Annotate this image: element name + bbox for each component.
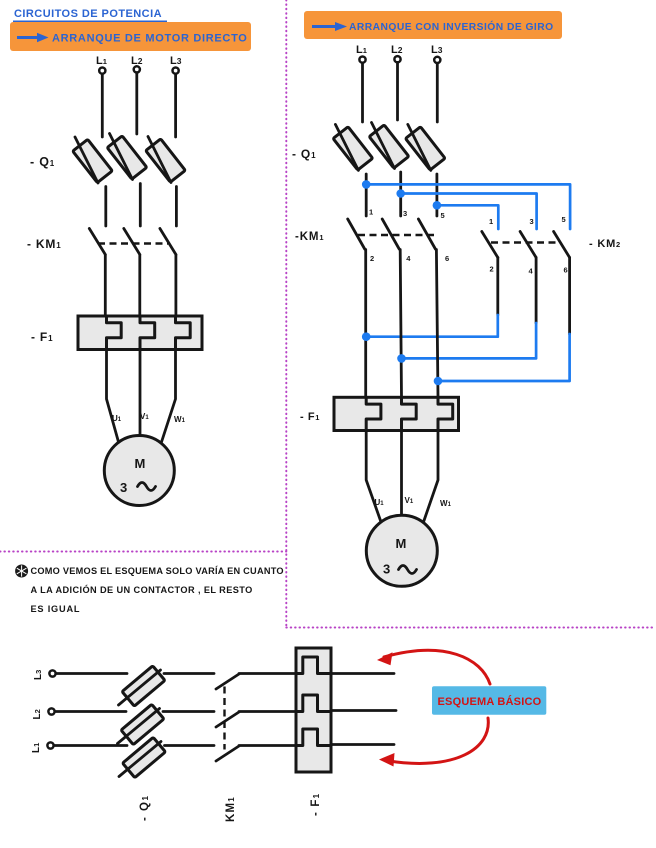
svg-text:ES IGUAL: ES IGUAL <box>31 604 81 614</box>
contactor KM1 pole 1 blade <box>89 229 105 255</box>
wire L2 feed <box>55 710 126 713</box>
blue return wire KM2-phase2 <box>402 323 537 358</box>
wire Q1-KM1 phase 1 <box>104 187 107 227</box>
F1 heater phase 1 <box>107 316 122 350</box>
svg-text:U1: U1 <box>112 414 122 423</box>
wire L3 drop right <box>436 64 439 123</box>
contactor KM1 right pole 1 blade <box>348 219 365 249</box>
wire KM2 pole3 down <box>568 258 571 335</box>
svg-text:- Q1: - Q1 <box>139 795 151 821</box>
svg-text:U1: U1 <box>375 498 385 507</box>
svg-text:3: 3 <box>120 480 127 495</box>
junction node phase2 bottom <box>397 354 406 363</box>
breaker Q1 bottom pole L2 <box>118 704 164 744</box>
contactor KM1 right pole 2 blade <box>382 219 399 249</box>
wire L1 drop right <box>361 63 364 122</box>
svg-text:V1: V1 <box>140 412 149 421</box>
svg-text:2: 2 <box>490 265 494 274</box>
wire F1-motor V right <box>400 431 403 517</box>
motor M right <box>366 515 437 586</box>
terminal L1 right <box>359 57 365 63</box>
svg-text:ARRANQUE DE MOTOR DIRECTO: ARRANQUE DE MOTOR DIRECTO <box>52 33 248 45</box>
svg-text:6: 6 <box>445 254 449 263</box>
junction node phase2 top <box>396 189 405 198</box>
svg-text:- F1: - F1 <box>310 793 322 816</box>
svg-text:2: 2 <box>370 254 374 263</box>
wire Q1-KM1 phase 2 <box>139 184 142 227</box>
blue return wire KM2-phase1 <box>366 315 498 337</box>
breaker Q1 bottom pole L3 <box>119 666 165 706</box>
svg-text:1: 1 <box>489 217 493 226</box>
wire F1-motor W <box>162 350 176 443</box>
svg-text:L3: L3 <box>170 55 182 67</box>
svg-text:W1: W1 <box>440 499 452 508</box>
terminal L3 <box>173 68 179 74</box>
svg-text:- F1: - F1 <box>31 330 53 344</box>
svg-text:3: 3 <box>403 209 407 218</box>
breaker Q1 right pole 1 <box>333 124 373 170</box>
KM1 bottom linkage dashed <box>223 687 225 750</box>
wire KM2 pole1 down <box>496 258 499 316</box>
banner arrow <box>17 33 49 42</box>
breaker Q1 pole 2 <box>107 134 147 180</box>
title CIRCUITOS DE POTENCIA <box>13 8 167 22</box>
terminal L1 <box>99 68 105 74</box>
wire F1-motor U right <box>366 431 381 523</box>
wire Q1-KM1 bottom L1 <box>165 744 215 747</box>
svg-text:COMO VEMOS EL ESQUEMA SOLO VAR: COMO VEMOS EL ESQUEMA SOLO VARÍA EN CUAN… <box>31 565 284 576</box>
svg-text:3: 3 <box>530 217 534 226</box>
contactor KM1 pole 3 blade <box>160 229 176 255</box>
contactor KM1 bottom pole L2 blade <box>216 712 239 727</box>
terminal L2 bottom <box>48 708 54 714</box>
wire F1 out L2 <box>331 709 396 712</box>
breaker Q1 right pole 2 <box>369 123 409 169</box>
separator horizontal right dotted <box>286 627 653 629</box>
breaker Q1 pole 3 <box>146 137 186 183</box>
svg-text:L2: L2 <box>391 44 403 56</box>
svg-text:6: 6 <box>564 266 568 275</box>
svg-text:L1: L1 <box>96 55 107 67</box>
F1 right heater phase 2 <box>402 397 417 430</box>
wire Q1-KM1 bottom L2 <box>163 710 214 713</box>
svg-text:V1: V1 <box>405 496 414 505</box>
contactor KM1 bottom pole L1 blade <box>216 746 239 761</box>
contactor KM1 bottom pole L3 blade <box>216 674 239 689</box>
svg-text:- F1: - F1 <box>300 411 320 423</box>
wire Q1-KM1 right phase 2 <box>399 172 402 216</box>
svg-text:W1: W1 <box>174 415 186 424</box>
terminal L3 right <box>434 57 440 63</box>
breaker Q1 right pole 3 <box>406 124 446 170</box>
wire F1 out L1 <box>331 743 394 746</box>
svg-text:1: 1 <box>369 208 373 217</box>
wire Q1-KM1 right phase 3 <box>435 174 438 216</box>
contactor KM2 pole 3 blade <box>554 232 570 258</box>
svg-text:L1: L1 <box>356 44 367 56</box>
blue feed wire to KM2 pole 3 <box>366 184 570 229</box>
F1 right heater phase 3 <box>438 397 453 430</box>
wire KM1-F1 right phase 2 <box>400 250 401 398</box>
svg-text:4: 4 <box>406 254 411 263</box>
banner arrow 2 <box>312 22 347 31</box>
wire KM1-F1 phase 1 <box>104 255 107 316</box>
thermal relay F1 box <box>78 316 202 350</box>
svg-text:5: 5 <box>562 215 566 224</box>
terminal L3 bottom <box>49 670 55 676</box>
terminal L2 right <box>394 56 400 62</box>
wire L2 drop <box>135 73 138 134</box>
svg-text:KM1: KM1 <box>225 796 237 822</box>
wire Q1-KM1 bottom L3 <box>164 672 214 675</box>
separator horizontal left dotted <box>0 551 286 553</box>
contactor KM2 pole 2 blade <box>520 232 536 258</box>
wire KM2 pole2 down <box>535 258 538 324</box>
junction node phase3 bottom <box>434 377 443 386</box>
motor M1 <box>104 436 174 506</box>
svg-text:CIRCUITOS DE POTENCIA: CIRCUITOS DE POTENCIA <box>14 8 162 20</box>
wire KM1-F1 right phase 1 <box>364 250 367 398</box>
wire F1-motor W right <box>424 431 439 523</box>
wire L2 drop right <box>396 63 399 120</box>
thermal relay F1 bottom box <box>296 648 331 772</box>
wire F1-motor V <box>139 350 142 437</box>
svg-text:M: M <box>396 536 407 551</box>
svg-text:L2: L2 <box>32 709 43 719</box>
svg-text:5: 5 <box>441 211 445 220</box>
svg-text:4: 4 <box>529 267 534 276</box>
F1 heater phase 2 <box>140 316 155 350</box>
wire L1 drop <box>101 74 104 137</box>
terminal L1 bottom <box>47 742 53 748</box>
svg-text:- KM1: - KM1 <box>27 237 61 251</box>
F1 bottom heater L1 <box>296 729 331 746</box>
breaker Q1 pole 1 <box>73 137 113 183</box>
wire KM1-F1 bottom L2 <box>239 710 296 713</box>
contactor KM2 pole 1 blade <box>482 232 498 258</box>
wire Q1-KM1 right phase 1 <box>365 174 368 216</box>
junction node phase3 top <box>433 201 442 210</box>
separator vertical dotted <box>285 0 287 628</box>
wire KM1-F1 bottom L1 <box>239 744 296 747</box>
F1 heater phase 3 <box>176 316 191 350</box>
KM1 right linkage dashed <box>358 234 434 236</box>
contactor KM1 pole 2 blade <box>124 229 140 255</box>
svg-text:ESQUEMA BÁSICO: ESQUEMA BÁSICO <box>438 695 542 708</box>
svg-text:L3: L3 <box>431 44 443 56</box>
svg-text:L1: L1 <box>31 743 42 753</box>
F1 bottom heater L2 <box>296 695 331 712</box>
junction node phase1 top <box>362 180 371 189</box>
wire L3 drop <box>174 74 177 137</box>
svg-text:L3: L3 <box>33 670 44 680</box>
wire KM1-F1 bottom L3 <box>239 672 296 675</box>
blue feed wire to KM2 pole 1 <box>437 205 498 229</box>
wire Q1-KM1 phase 3 <box>175 187 178 227</box>
svg-text:3: 3 <box>383 562 390 577</box>
red arrow lower <box>379 718 488 767</box>
red arrow upper <box>377 650 490 684</box>
svg-text:- KM2: - KM2 <box>589 238 621 250</box>
F1 right heater phase 1 <box>366 397 381 430</box>
thermal relay F1 right box <box>334 397 459 430</box>
wire L3 feed <box>56 672 127 675</box>
svg-text:-KM1: -KM1 <box>295 231 325 243</box>
KM2 linkage dashed <box>491 241 561 243</box>
banner ARRANQUE DE MOTOR DIRECTO <box>10 22 251 51</box>
contactor KM1 right pole 3 blade <box>418 219 435 249</box>
wire L1 feed <box>54 744 127 747</box>
svg-text:- Q1: - Q1 <box>30 155 55 169</box>
wire F1 out L3 <box>331 672 394 675</box>
note icon <box>15 565 28 578</box>
KM1 linkage dashed <box>98 242 168 244</box>
banner ARRANQUE CON INVERSION DE GIRO <box>304 11 562 39</box>
svg-text:A LA ADICIÓN DE UN CONTACTOR ,: A LA ADICIÓN DE UN CONTACTOR , EL RESTO <box>31 584 253 595</box>
blue feed wire to KM2 pole 2 <box>401 194 537 230</box>
svg-text:- Q1: - Q1 <box>292 147 316 161</box>
svg-text:ARRANQUE CON INVERSIÓN DE GIRO: ARRANQUE CON INVERSIÓN DE GIRO <box>349 20 554 33</box>
breaker Q1 bottom pole L1 <box>119 737 165 777</box>
wire F1-motor U <box>107 350 119 443</box>
wire KM1-F1 right phase 3 <box>436 250 438 398</box>
F1 bottom heater L3 <box>296 657 331 674</box>
junction node phase1 bottom <box>362 332 371 341</box>
wire KM1-F1 phase 3 <box>174 255 177 316</box>
highlight box ESQUEMA BASICO <box>432 686 546 715</box>
wire KM1-F1 phase 2 <box>138 255 141 316</box>
blue return wire KM2-phase3 <box>438 334 570 381</box>
svg-text:M: M <box>135 456 146 471</box>
terminal L2 <box>134 66 140 72</box>
